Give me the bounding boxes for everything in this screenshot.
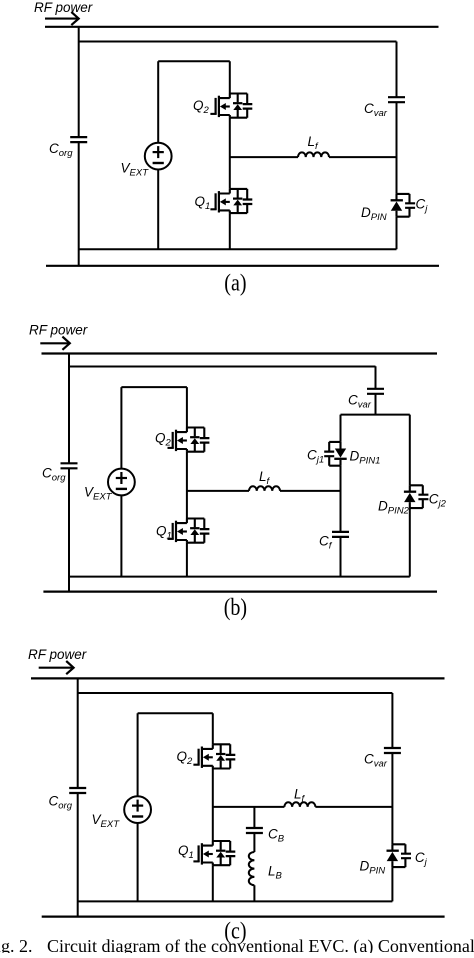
transistor Q2 (b) — [168, 428, 210, 452]
transistor Q2 (c) — [193, 744, 235, 768]
svg-text:Cvar: Cvar — [364, 752, 388, 770]
wire Q branch (c) — [212, 713, 214, 901]
wire top rail (c) — [31, 677, 445, 679]
diode D_PIN with C_j (a) — [391, 194, 416, 217]
wire top rail (a) — [45, 26, 439, 28]
source V_EXT (a) — [145, 143, 172, 170]
wire bottom rail (c) — [42, 915, 445, 917]
wire V_EXT branch (c) — [138, 713, 213, 901]
svg-text:Q2: Q2 — [193, 98, 210, 116]
wire mid node line (a) — [230, 156, 397, 158]
capacitor C_org (b) — [61, 463, 78, 468]
svg-text:Cj2: Cj2 — [429, 492, 447, 510]
svg-text:Circuit diagram of the convent: Circuit diagram of the conventional EVC.… — [47, 936, 474, 953]
inductor L_B (c) — [249, 852, 255, 885]
wire C_var branch (b) — [375, 366, 377, 414]
wire inner top rail (c) — [78, 692, 393, 694]
svg-text:RF power: RF power — [34, 0, 93, 15]
capacitor C_B (c) — [246, 828, 263, 833]
svg-text:Q2: Q2 — [155, 430, 172, 448]
svg-text:Fig. 2.: Fig. 2. — [0, 936, 33, 953]
wire mid node line (b) — [187, 490, 341, 492]
transistor Q2 (a) — [210, 94, 252, 118]
svg-text:Cj: Cj — [415, 850, 428, 868]
svg-text:Q1: Q1 — [156, 523, 172, 541]
diode D_PIN1 with C_j1 (b) — [324, 442, 347, 466]
wire bottom rail (a) — [46, 265, 439, 267]
svg-text:Cf: Cf — [319, 534, 333, 552]
svg-text:CB: CB — [268, 827, 285, 845]
svg-text:DPIN: DPIN — [361, 205, 387, 223]
transistor Q1 (b) — [168, 519, 210, 543]
svg-text:Lf: Lf — [259, 469, 271, 487]
source V_EXT (b) — [108, 469, 135, 496]
svg-text:Q1: Q1 — [195, 194, 211, 212]
wire left branch (b) — [68, 354, 70, 592]
svg-text:DPIN1: DPIN1 — [350, 449, 381, 467]
inductor L_f (b) — [249, 486, 280, 491]
svg-text:RF power: RF power — [28, 647, 87, 662]
svg-text:Cj1: Cj1 — [307, 448, 324, 466]
wire right branch (a) — [396, 42, 398, 250]
transistor Q1 (a) — [210, 189, 252, 213]
wire inner bottom line (b) — [69, 576, 410, 578]
inductor L_f (a) — [298, 152, 329, 157]
svg-text:DPIN: DPIN — [360, 859, 386, 877]
capacitor C_f (b) — [332, 532, 349, 537]
inductor L_f (c) — [284, 802, 315, 807]
wire left branch (c) — [77, 678, 79, 916]
svg-text:Q2: Q2 — [177, 749, 194, 767]
RF input arrow (c) — [39, 661, 74, 674]
wire inner bottom line (c) — [78, 900, 393, 902]
wire right block right edge (b) — [409, 415, 411, 577]
wire top rail (b) — [42, 352, 438, 354]
svg-text:Lf: Lf — [308, 134, 320, 152]
diode D_PIN with C_j (c) — [387, 844, 412, 867]
wire C_B L_B branch (c) — [253, 807, 255, 902]
wire V_EXT branch (a) — [158, 61, 230, 249]
svg-text:Cvar: Cvar — [348, 393, 372, 411]
svg-text:(a): (a) — [224, 269, 246, 296]
wire right branch (c) — [391, 693, 393, 901]
wire right block box top (b) — [341, 414, 410, 416]
wire left branch (a) — [78, 27, 80, 266]
capacitor C_org (a) — [70, 137, 87, 142]
diode D_PIN2 with C_j2 (b) — [404, 485, 429, 508]
transistor Q1 (c) — [193, 841, 235, 865]
svg-text:Corg: Corg — [49, 141, 73, 159]
svg-text:VEXT: VEXT — [92, 812, 121, 830]
wire mid node line (c) — [213, 806, 393, 808]
wire right block left edge (b) — [340, 415, 342, 577]
RF input arrow (a) — [45, 12, 79, 25]
wire inner bottom line (a) — [79, 248, 397, 250]
capacitor C_org (c) — [69, 788, 86, 793]
RF input arrow (b) — [40, 337, 70, 350]
capacitor C_var (b) — [367, 389, 384, 394]
svg-text:LB: LB — [268, 864, 283, 882]
svg-text:RF power: RF power — [29, 323, 88, 338]
svg-text:Q1: Q1 — [178, 843, 194, 861]
svg-text:Cj: Cj — [416, 197, 429, 215]
capacitor C_var (c) — [384, 748, 401, 753]
svg-text:(b): (b) — [224, 593, 247, 620]
wire Q branch (a) — [229, 61, 231, 249]
wire Q branch (b) — [186, 387, 188, 576]
svg-text:Corg: Corg — [49, 794, 73, 812]
wire inner top rail (b) — [69, 366, 376, 368]
wire inner top rail (a) — [79, 41, 397, 43]
source V_EXT (c) — [124, 796, 151, 823]
svg-text:VEXT: VEXT — [121, 161, 150, 179]
svg-text:Cvar: Cvar — [364, 101, 388, 119]
capacitor C_var (a) — [388, 97, 405, 102]
wire V_EXT branch (b) — [121, 387, 186, 576]
wire bottom rail (b) — [43, 590, 437, 592]
